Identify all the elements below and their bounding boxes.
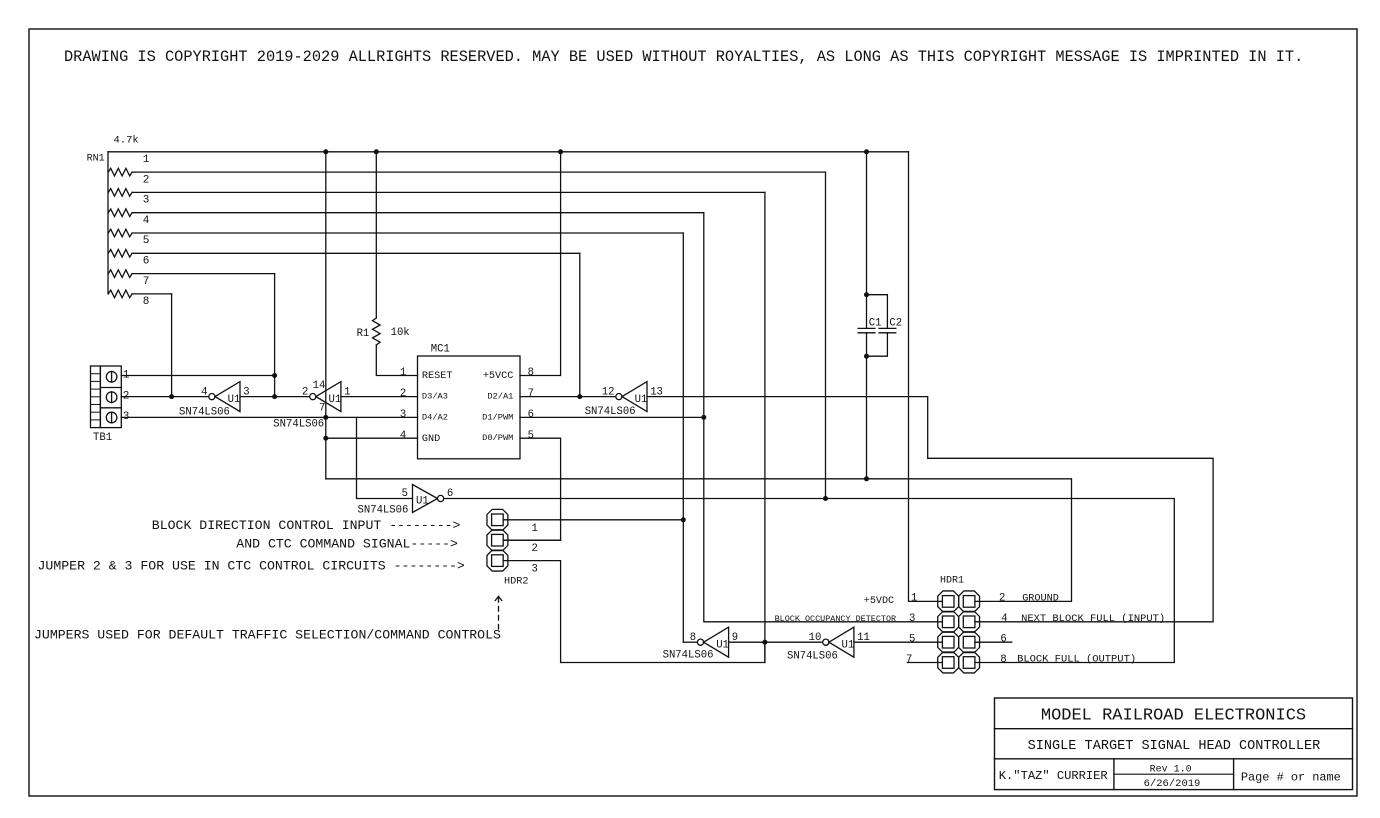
svg-text:BLOCK DIRECTION CONTROL INPUT: BLOCK DIRECTION CONTROL INPUT --------> xyxy=(152,518,461,533)
svg-text:D2/A1: D2/A1 xyxy=(487,392,513,402)
wire HDR2 pin1 row xyxy=(503,519,683,521)
junction: power column at D4/A2 wire xyxy=(323,415,328,420)
resistor network RN1 xyxy=(87,134,150,308)
wire U1 pin11 to HDR1 pin5 xyxy=(854,641,943,643)
inverter U1D pins 12-13 SN74LS06 xyxy=(585,382,663,418)
svg-text:SN74LS06: SN74LS06 xyxy=(179,407,230,419)
svg-text:C2: C2 xyxy=(889,317,902,329)
wire U1 pin6 output to HDR1 pin8 net xyxy=(444,499,1175,663)
junction: pin7 column at TB1 pin1 and U1 input xyxy=(272,373,277,399)
svg-text:14: 14 xyxy=(313,380,326,392)
svg-text:JUMPER 2 & 3 FOR USE IN CTC CO: JUMPER 2 & 3 FOR USE IN CTC CONTROL CIRC… xyxy=(38,559,465,574)
svg-text:D4/A2: D4/A2 xyxy=(422,412,448,422)
svg-text:D0/PWM: D0/PWM xyxy=(482,433,513,443)
wire TB1 pin1 row xyxy=(121,375,274,377)
junction: pin8 column at TB1 pin2 wire xyxy=(169,394,174,399)
svg-text:BLOCK FULL (OUTPUT): BLOCK FULL (OUTPUT) xyxy=(1017,654,1136,666)
wire RN1 pin8 row xyxy=(132,293,172,295)
svg-text:HDR2: HDR2 xyxy=(504,577,528,588)
inverter U1B pins 2-1 SN74LS06 with power pins 14/7 xyxy=(273,380,350,430)
inverter U1F pins 10-11 SN74LS06 xyxy=(787,627,870,662)
svg-text:RESET: RESET xyxy=(422,371,453,382)
wire RN1 pin4 row xyxy=(132,212,704,214)
wire RN1 pin2 to U1 pin6 output net xyxy=(825,172,827,498)
svg-text:4: 4 xyxy=(400,430,406,442)
svg-text:7: 7 xyxy=(143,276,150,288)
wire RN1 pin7 row xyxy=(132,273,275,275)
wire GND bus to HDR1 pin2 xyxy=(326,479,1072,602)
junction dots capacitor branch xyxy=(864,292,869,359)
title block xyxy=(995,698,1353,790)
svg-text:U1: U1 xyxy=(416,496,429,508)
wire +5V rail to HDR1 pin1 xyxy=(909,152,943,602)
svg-text:5: 5 xyxy=(143,235,150,247)
svg-text:6/26/2019: 6/26/2019 xyxy=(1144,778,1201,790)
svg-text:4: 4 xyxy=(143,215,150,227)
junction dots on +5V row xyxy=(323,149,869,154)
svg-text:3: 3 xyxy=(400,409,406,421)
resistor R1 xyxy=(357,318,410,345)
svg-text:1: 1 xyxy=(143,154,150,166)
inverter U1A pins 4-3 SN74LS06 xyxy=(179,382,250,419)
svg-text:+5VCC: +5VCC xyxy=(483,371,514,382)
terminal block TB1 xyxy=(91,366,122,444)
wire U1A pin3 to U1B pin2 xyxy=(240,396,310,398)
wire U1 pin14/pin7 power column xyxy=(325,152,327,479)
svg-text:3: 3 xyxy=(532,564,538,576)
wire U1 pin13 output to HDR1 pin4 net xyxy=(647,397,1213,622)
wire +5V row to capacitors C1 C2 xyxy=(866,152,868,329)
svg-text:HDR1: HDR1 xyxy=(940,576,964,587)
svg-text:7: 7 xyxy=(906,654,912,666)
svg-text:+5VDC: +5VDC xyxy=(864,596,894,607)
wire C2 parallel branch xyxy=(867,295,888,357)
svg-text:MC1: MC1 xyxy=(431,344,450,356)
svg-text:2: 2 xyxy=(143,174,150,186)
wire MC1 D4/A2 branch to U1 pin5 xyxy=(357,417,413,498)
svg-text:D1/PWM: D1/PWM xyxy=(482,412,513,422)
svg-text:1: 1 xyxy=(532,523,538,535)
wire MC1 GND pin4 xyxy=(326,437,418,439)
wire RN1 pin8 to TB1 pin2 net xyxy=(171,294,173,397)
svg-text:TB1: TB1 xyxy=(93,432,112,444)
svg-text:D3/A3: D3/A3 xyxy=(422,392,448,402)
svg-text:6: 6 xyxy=(1000,634,1006,646)
wire RN1 pin4 to D1/PWM / HDR1 pin3 net xyxy=(704,213,943,622)
svg-text:DRAWING IS COPYRIGHT 2019-2029: DRAWING IS COPYRIGHT 2019-2029 ALLRIGHTS… xyxy=(64,48,1303,66)
svg-text:U1: U1 xyxy=(228,394,241,406)
wire HDR2 pin3 to bottom run xyxy=(503,561,765,663)
junction: pin6 column at D2/A1 wire xyxy=(577,394,582,399)
svg-text:4.7k: 4.7k xyxy=(114,134,139,146)
wire MC1 D0/PWM pin5 to HDR2 pin2 xyxy=(505,438,561,540)
wire RN1 pin2 row xyxy=(132,171,825,173)
inverter U1C pins 5-6 SN74LS06 xyxy=(358,485,454,517)
wire MC1 +5VCC pin8 to +5V row xyxy=(520,152,561,376)
junction: pin2 column at U1 pin6 output wire xyxy=(823,496,828,501)
svg-text:6: 6 xyxy=(143,256,150,268)
svg-text:7: 7 xyxy=(319,403,325,415)
capacitor C1 xyxy=(858,317,881,332)
svg-text:4: 4 xyxy=(1001,613,1007,625)
svg-text:1: 1 xyxy=(911,593,917,605)
HDR2 pin numbers xyxy=(532,523,538,576)
wire RN1 pin5 to HDR2 pin1 / U1 pin8 net xyxy=(682,233,684,642)
HDR1 pin numbers xyxy=(906,593,1008,666)
HDR1 pin6 stub xyxy=(975,641,1012,643)
wire RN1 pin5 row xyxy=(132,232,683,234)
svg-text:AND CTC COMMAND SIGNAL----->: AND CTC COMMAND SIGNAL-----> xyxy=(236,537,458,552)
svg-text:SN74LS06: SN74LS06 xyxy=(358,505,409,517)
svg-text:SN74LS06: SN74LS06 xyxy=(273,418,324,430)
svg-text:GROUND: GROUND xyxy=(1022,593,1059,604)
svg-text:U1: U1 xyxy=(842,640,855,652)
svg-text:2: 2 xyxy=(532,543,538,555)
TB1 pin numbers xyxy=(123,369,130,423)
microcontroller MC1 xyxy=(418,344,521,459)
svg-text:2: 2 xyxy=(999,593,1005,605)
svg-text:5: 5 xyxy=(528,430,534,442)
svg-text:8: 8 xyxy=(528,367,534,379)
wire RN1 pin6 to D2/A1 net xyxy=(579,253,581,396)
svg-text:R1: R1 xyxy=(357,328,370,340)
wire C1 to GND bus xyxy=(866,333,868,479)
svg-text:3: 3 xyxy=(909,613,915,625)
svg-text:6: 6 xyxy=(528,409,534,421)
wire HDR2 pin2 row xyxy=(503,539,560,541)
svg-text:3: 3 xyxy=(143,195,150,207)
svg-text:12: 12 xyxy=(602,387,615,399)
svg-text:1: 1 xyxy=(400,367,406,379)
inverter U1E pins 8-9 SN74LS06 xyxy=(663,627,739,662)
wire MC1 D2/A1 pin7 to U1 pin12 xyxy=(520,396,616,398)
svg-text:7: 7 xyxy=(528,388,534,400)
svg-text:SN74LS06: SN74LS06 xyxy=(663,650,714,662)
svg-text:K."TAZ" CURRIER: K."TAZ" CURRIER xyxy=(999,769,1108,783)
wire TB1 pin2 to U1A output pin4 xyxy=(121,396,209,398)
connector HDR1 xyxy=(938,576,980,673)
svg-text:BLOCK OCCUPANCY DETECTOR: BLOCK OCCUPANCY DETECTOR xyxy=(775,614,897,624)
junction: pin5 column at HDR2 pin1 wire xyxy=(681,517,686,522)
svg-text:RN1: RN1 xyxy=(87,154,105,165)
wire U1B pin1 to MC1 D3/A3 xyxy=(341,396,418,398)
svg-text:U1: U1 xyxy=(635,394,648,406)
junction: pin3 column at U1 pin9-pin10 wire xyxy=(762,640,767,645)
svg-text:SINGLE TARGET SIGNAL HEAD CONT: SINGLE TARGET SIGNAL HEAD CONTROLLER xyxy=(1028,739,1321,754)
capacitor C2 xyxy=(879,317,902,332)
svg-text:10: 10 xyxy=(809,632,822,644)
MC1 pin numbers xyxy=(400,367,534,442)
svg-text:GND: GND xyxy=(422,434,440,445)
wire U1 pin9 to U1 pin10 xyxy=(729,641,823,643)
wire RN1 pin6 row xyxy=(132,252,580,254)
wire U1 pin8 input from RN1 pin5 column xyxy=(683,641,697,643)
dashed arrow to HDR2 xyxy=(495,596,501,629)
svg-text:JUMPERS USED FOR DEFAULT TRAFF: JUMPERS USED FOR DEFAULT TRAFFIC SELECTI… xyxy=(34,628,501,643)
svg-text:C1: C1 xyxy=(869,317,882,329)
connector HDR2 xyxy=(487,509,529,587)
svg-text:U1: U1 xyxy=(329,394,342,406)
svg-text:2: 2 xyxy=(400,388,406,400)
svg-text:Rev 1.0: Rev 1.0 xyxy=(1150,765,1192,776)
wire R1 to MC1 RESET pin1 xyxy=(376,345,417,376)
wire +5V to R1 xyxy=(375,152,377,318)
wire MC1 D1/PWM pin6 xyxy=(520,416,704,418)
svg-text:SN74LS06: SN74LS06 xyxy=(787,651,838,663)
wire RN1 pin1 +5V row xyxy=(108,151,909,153)
svg-text:U1: U1 xyxy=(716,640,729,652)
svg-text:2: 2 xyxy=(302,387,308,399)
svg-text:8: 8 xyxy=(1000,654,1006,666)
svg-text:SN74LS06: SN74LS06 xyxy=(585,406,636,418)
wire RN1 pin3 to U1 pin9 net xyxy=(764,192,766,662)
wire TB1 pin3 / D4/A2 row xyxy=(121,416,417,418)
svg-text:10k: 10k xyxy=(391,327,410,339)
junction: pin4 column at D1/PWM wire xyxy=(701,415,706,420)
wire RN1 pin7 to TB1 pin1 / U1A input net xyxy=(274,274,276,397)
wire RN1 pin3 row xyxy=(132,191,765,193)
svg-text:4: 4 xyxy=(201,387,207,399)
svg-text:NEXT BLOCK FULL (INPUT): NEXT BLOCK FULL (INPUT) xyxy=(1021,613,1165,625)
junction: power column at GND wire xyxy=(323,436,328,441)
svg-text:8: 8 xyxy=(143,296,150,308)
svg-text:5: 5 xyxy=(909,634,915,646)
svg-text:MODEL RAILROAD ELECTRONICS: MODEL RAILROAD ELECTRONICS xyxy=(1041,707,1306,726)
svg-text:Page # or name: Page # or name xyxy=(1241,771,1341,785)
HDR1 pin7 stub xyxy=(907,662,942,664)
svg-text:5: 5 xyxy=(402,488,408,500)
junction: capacitor column at GND bus xyxy=(864,476,869,481)
